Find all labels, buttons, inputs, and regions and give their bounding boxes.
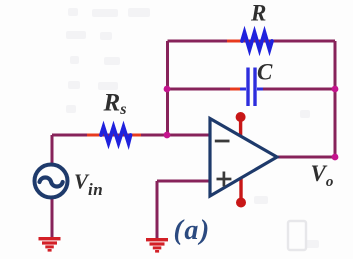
lead orange right of Rs xyxy=(130,134,141,137)
lead orange left of Rs xyxy=(87,134,101,137)
wire left vertical (feedback down to inverting node) xyxy=(166,41,169,137)
node dot at capacitor-left junction xyxy=(164,86,171,93)
ground below source xyxy=(39,237,61,252)
op-amp positive supply stub and dot xyxy=(236,112,246,137)
resistor Rs xyxy=(101,127,131,143)
svg-text:C: C xyxy=(257,60,273,85)
capacitor C xyxy=(240,68,263,107)
wire input from source to op-amp minus xyxy=(52,134,210,137)
lead orange left of C xyxy=(230,88,240,91)
source Vin sine wave xyxy=(40,178,63,187)
op-amp U1 triangle xyxy=(210,119,277,197)
node dot at output junction xyxy=(332,154,339,161)
svg-text:(a): (a) xyxy=(174,215,211,246)
source Vin circle xyxy=(35,165,68,198)
op-amp negative supply stub and dot xyxy=(236,178,246,208)
wire source bottom to ground xyxy=(51,197,54,238)
node dot at inverting input junction xyxy=(164,132,171,139)
node dot at capacitor-right junction xyxy=(332,86,339,93)
op-amp minus sign xyxy=(215,140,230,143)
wire output xyxy=(277,156,335,159)
wire plus input horizontal xyxy=(157,180,210,183)
wire capacitor branch horizontal xyxy=(166,88,243,91)
wire plus input vertical to ground xyxy=(156,181,159,239)
svg-text:R: R xyxy=(250,1,266,26)
lead orange left of R xyxy=(227,40,243,43)
wire top feedback horizontal xyxy=(168,40,336,43)
op-amp plus sign xyxy=(217,172,232,187)
ground below plus input xyxy=(146,238,168,253)
wire source top vertical xyxy=(51,135,54,165)
resistor R xyxy=(242,33,272,50)
wire capacitor branch right xyxy=(260,88,335,91)
wire right vertical (feedback to output) xyxy=(334,41,337,157)
